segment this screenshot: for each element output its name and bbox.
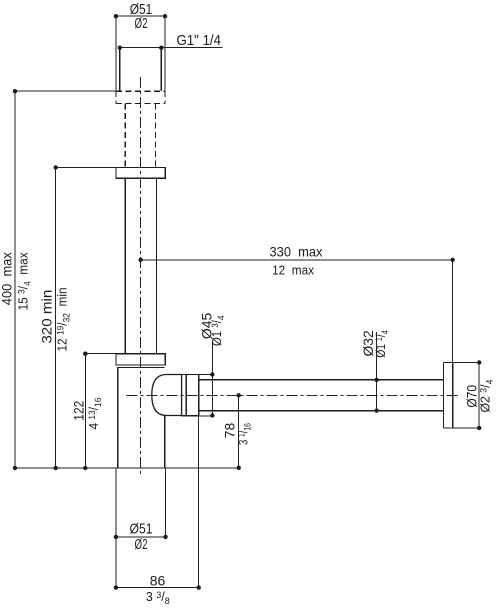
- svg-text:Ø1 1/4: Ø1 1/4: [374, 330, 390, 358]
- dimension Ø45: [199, 342, 215, 416]
- dashed rosette collar: [116, 91, 165, 103]
- elbow/nut junction: [185, 375, 187, 416]
- horizontal center line: [127, 394, 458, 396]
- svg-text:Ø2: Ø2: [135, 537, 148, 553]
- svg-text:86: 86: [150, 573, 166, 589]
- dashed hidden pipe: [125, 103, 155, 167]
- dimension 122: [85, 354, 116, 468]
- G1" 1/4 leader and label: [120, 47, 223, 49]
- svg-text:15 3/4 max: 15 3/4 max: [17, 252, 33, 311]
- wall escutcheon flange: [444, 363, 453, 428]
- elbow: [152, 375, 182, 416]
- outlet nut: [182, 375, 199, 416]
- dimension 86: [116, 416, 199, 588]
- upper pipe flange: [116, 168, 165, 179]
- svg-text:320 min: 320 min: [39, 290, 55, 344]
- bottom reference line: [15, 467, 239, 469]
- svg-text:12 max: 12 max: [272, 263, 315, 277]
- vertical center line: [140, 77, 142, 476]
- svg-text:Ø1 3/4: Ø1 3/4: [210, 315, 226, 346]
- body collar lower edge: [118, 366, 165, 368]
- dimension 78: [238, 395, 240, 468]
- svg-text:Ø70: Ø70: [464, 385, 480, 408]
- svg-text:Ø2: Ø2: [135, 16, 148, 32]
- dimension 400 max: [15, 91, 116, 468]
- body collar: [116, 354, 165, 365]
- dimension Ø70 with flange extensions: [444, 363, 480, 428]
- svg-text:G1" 1/4: G1" 1/4: [177, 33, 222, 49]
- svg-text:330 max: 330 max: [270, 244, 323, 260]
- dimension top Ø51: [116, 16, 165, 91]
- dimension 330 max: [141, 260, 453, 428]
- dimension 320 min: [56, 168, 116, 469]
- top inlet nut body: [120, 48, 162, 91]
- horizontal outlet pipe: [199, 380, 444, 411]
- dimension Ø32: [376, 332, 378, 411]
- dimension bottom Ø51: [116, 468, 166, 588]
- svg-text:122: 122: [71, 401, 87, 421]
- svg-text:400 max: 400 max: [0, 252, 15, 305]
- vertical pipe: [125, 178, 156, 354]
- trap cup body: [118, 367, 165, 468]
- svg-text:Ø51: Ø51: [130, 522, 153, 538]
- svg-text:Ø2 3/4: Ø2 3/4: [479, 380, 495, 413]
- svg-text:78: 78: [222, 423, 238, 439]
